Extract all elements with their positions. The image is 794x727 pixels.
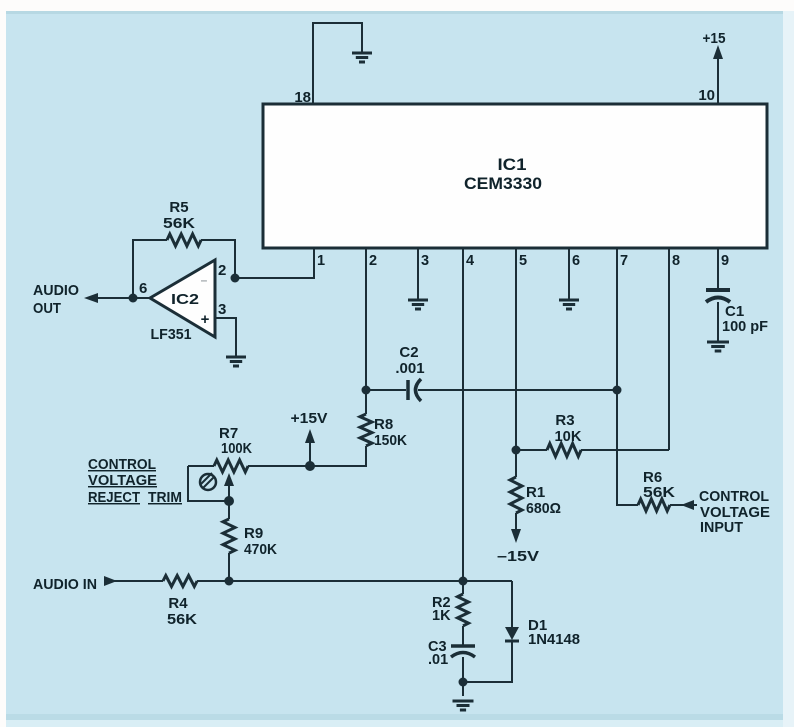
svg-text:1: 1 [317, 253, 325, 269]
trim screw symbol [200, 474, 216, 490]
svg-text:10K: 10K [555, 428, 582, 445]
wire audio-in line [104, 580, 512, 582]
svg-text:IC1: IC1 [498, 156, 527, 174]
ground (op-amp pin 3) [226, 357, 246, 366]
wire R8 bottom to R7 rail [310, 446, 366, 466]
wire R1 to -15V arrow [515, 513, 517, 532]
node op-amp output (junction dot) [129, 294, 138, 303]
svg-text:R8: R8 [374, 416, 393, 433]
wire pin1 of IC1 down-left to op-amp pin2 node [235, 248, 314, 278]
svg-text:2: 2 [218, 262, 226, 279]
svg-text:56K: 56K [167, 611, 197, 628]
svg-text:AUDIO: AUDIO [33, 282, 79, 299]
svg-text:470K: 470K [244, 541, 277, 558]
svg-text:+: + [201, 311, 210, 328]
svg-text:3: 3 [218, 301, 226, 318]
svg-text:.01: .01 [428, 652, 448, 668]
node pin2/C2 junction dot [362, 386, 371, 395]
svg-text:OUT: OUT [33, 300, 61, 317]
svg-text:–15V: –15V [497, 548, 539, 565]
wire pin6 to ground [568, 248, 570, 299]
node +15V junction dot [305, 461, 315, 471]
svg-text:R5: R5 [169, 199, 188, 216]
wire D1 loop [463, 581, 512, 682]
wire R2 to C3 [462, 626, 464, 645]
capacitor C2 [406, 380, 410, 400]
wire pin9 to C1 [717, 248, 719, 288]
wire pin4 column [462, 248, 464, 594]
svg-text:REJECT: REJECT [88, 490, 140, 506]
svg-text:LF351: LF351 [151, 326, 192, 343]
wire pin7 column [617, 248, 638, 505]
+15 supply arrow [713, 45, 723, 59]
svg-text:R1: R1 [526, 484, 545, 501]
svg-text:.001: .001 [395, 360, 424, 377]
svg-text:4: 4 [466, 253, 474, 269]
wire pin18 to top ground [313, 23, 362, 104]
svg-text:C2: C2 [399, 344, 418, 361]
node pin4/audio junction dot [459, 577, 468, 586]
svg-text:6: 6 [572, 253, 580, 269]
svg-text:+15: +15 [703, 30, 726, 47]
svg-text:8: 8 [672, 253, 680, 269]
CONTROL VOLTAGE REJECT TRIM label [88, 457, 182, 506]
diode D1 [505, 627, 519, 640]
wire pin10 to +15 [717, 55, 719, 104]
svg-text:R3: R3 [555, 412, 574, 429]
ground (pin 18 net) [352, 53, 372, 62]
+15V supply arrow [309, 440, 311, 466]
svg-text:1N4148: 1N4148 [528, 631, 580, 648]
resistor R1 [510, 477, 522, 513]
node op-amp inverting input (junction dot) [231, 274, 240, 283]
svg-text:150K: 150K [374, 432, 407, 449]
resistor R5 [167, 234, 201, 246]
wire R6 to input arrow [670, 504, 697, 506]
svg-text:9: 9 [721, 253, 729, 269]
svg-text:TRIM: TRIM [148, 490, 182, 506]
resistor R4 [163, 576, 197, 587]
svg-text:R4: R4 [168, 595, 188, 612]
wire op-amp output to AUDIO OUT arrow [95, 297, 149, 299]
svg-text:1K: 1K [432, 608, 451, 624]
svg-text:56K: 56K [643, 484, 675, 501]
wire C3 to ground node [462, 657, 464, 696]
svg-text:VOLTAGE: VOLTAGE [88, 473, 157, 489]
node C3/D1 ground junction dot [459, 678, 468, 687]
wire pin3 to ground [417, 248, 419, 299]
svg-text:CONTROL: CONTROL [88, 457, 156, 473]
svg-text:+15V: +15V [291, 410, 328, 427]
svg-text:CEM3330: CEM3330 [464, 175, 542, 193]
ground (C3/D1) [453, 701, 474, 710]
wire R5 feedback loop [133, 240, 235, 298]
ground (pin 3) [408, 300, 428, 309]
wire R7 rail [188, 465, 366, 467]
wire C2 left [366, 389, 406, 391]
resistor R8 [360, 414, 372, 446]
svg-text:10: 10 [698, 87, 715, 104]
capacitor C3 [451, 644, 475, 648]
svg-text:CONTROL: CONTROL [699, 488, 769, 505]
svg-text:6: 6 [139, 280, 147, 297]
wire C2 right to pin7 column [418, 389, 617, 391]
node R9/audio junction dot [225, 577, 234, 586]
op-amp IC2 (LF351) triangle [150, 260, 215, 337]
wire trim loop [188, 466, 229, 501]
svg-text:R9: R9 [244, 525, 263, 542]
resistor R7 (trimpot) [214, 460, 248, 472]
svg-text:5: 5 [519, 253, 527, 269]
resistor R3 [547, 444, 581, 457]
pin numbers 1-9 [317, 253, 729, 269]
node wiper junction dot [224, 496, 234, 506]
capacitor C1 [706, 288, 730, 292]
wire pin2 column [365, 248, 367, 414]
resistor R2 [458, 594, 469, 626]
svg-text:100 pF: 100 pF [722, 318, 768, 335]
wire R3 rail [516, 449, 669, 451]
svg-text:AUDIO IN: AUDIO IN [33, 576, 97, 593]
svg-text:56K: 56K [163, 215, 195, 232]
ground (C1) [707, 342, 729, 351]
resistor R6 [638, 499, 670, 511]
svg-text:7: 7 [620, 253, 628, 269]
wire op-amp pin3 to ground [215, 318, 236, 356]
node R3/R1 junction dot [512, 446, 521, 455]
svg-text:3: 3 [421, 253, 429, 269]
svg-text:2: 2 [369, 253, 377, 269]
svg-text:100K: 100K [221, 440, 252, 457]
trimpot wiper arrow [228, 482, 230, 501]
IC IC1 (CEM3330) box [263, 104, 767, 248]
ground (pin 6) [559, 300, 579, 309]
svg-text:INPUT: INPUT [700, 519, 743, 536]
wire C1 to ground [717, 302, 719, 341]
wire pin8 column [668, 248, 670, 450]
svg-text:–: – [201, 273, 208, 287]
node C2/pin7 junction dot [613, 386, 622, 395]
svg-text:IC2: IC2 [171, 291, 199, 308]
resistor R9 [223, 519, 235, 553]
wire pin5 column [515, 248, 517, 477]
svg-text:680Ω: 680Ω [526, 500, 561, 517]
wire R9 column [228, 501, 230, 581]
